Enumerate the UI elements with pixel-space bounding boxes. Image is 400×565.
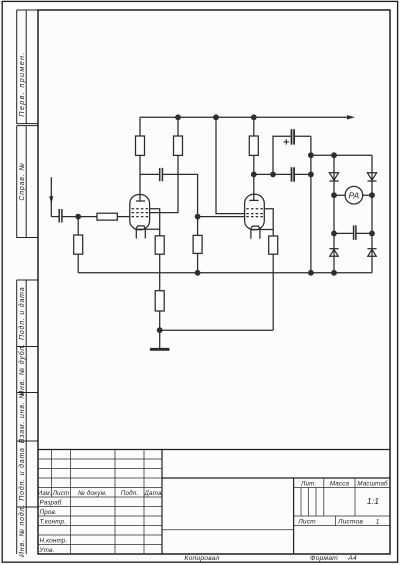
heater V2: [250, 226, 260, 229]
svg-text:Изм.: Изм.: [38, 490, 52, 497]
wire R5 to bottom bus: [77, 254, 79, 273]
svg-text:Утв.: Утв.: [39, 547, 55, 554]
wire bridge left column: [333, 155, 335, 273]
wire ground link: [160, 329, 274, 331]
wire R4 to grid V1: [117, 216, 130, 218]
wire bridge right column: [371, 155, 373, 273]
input terminal arrow: [50, 177, 52, 216]
wire node B to bridge: [311, 154, 372, 156]
svg-text:Разраб.: Разраб.: [40, 499, 64, 507]
cathode lead V1: [136, 228, 160, 230]
wire R8 to ground wire: [272, 254, 274, 330]
svg-text:Лист: Лист: [297, 518, 316, 525]
resistor R3 (plate load V2): [249, 136, 258, 155]
wire grid node V1 down: [77, 217, 79, 235]
vacuum tube V2 envelope: [245, 194, 265, 230]
grid dashes V2: [246, 208, 263, 210]
anode bar V2: [249, 199, 258, 201]
wire R3 to anode V2: [253, 155, 255, 201]
wire node B vertical: [310, 136, 312, 272]
resistor R5 (grid leak V1): [74, 235, 83, 254]
title block texts: [38, 479, 388, 562]
title block major lines: [38, 450, 390, 555]
wire cathode V2 down: [264, 209, 273, 236]
resistor R9 (grid leak V2): [193, 235, 202, 253]
resistor R4 (grid stopper V1): [97, 213, 117, 220]
left margin stamp boxes: [17, 10, 38, 554]
svg-text:Перв. примен.: Перв. примен.: [17, 51, 26, 116]
wire R1 to anode V1: [139, 155, 141, 201]
meter PA: [345, 186, 363, 204]
title block thin lines: [38, 450, 390, 555]
resistor R1 (plate load V1): [136, 136, 145, 155]
svg-text:Листов: Листов: [337, 518, 363, 525]
svg-text:Инв. № подл.: Инв. № подл.: [18, 504, 26, 557]
capacitor C4 (output coupling): [292, 167, 295, 181]
capacitor C1 (input coupling): [59, 209, 62, 223]
diode VD2: [367, 173, 376, 180]
svg-text:Н.контр.: Н.контр.: [40, 538, 68, 545]
svg-text:Лит.: Лит.: [300, 480, 316, 487]
wire bottom bus: [78, 272, 372, 274]
wire branch up to C3: [273, 136, 291, 174]
svg-text:Подп. и дата: Подп. и дата: [18, 447, 26, 500]
wire rail to R3: [253, 117, 255, 136]
cathode lead V2: [250, 229, 273, 231]
wire input to C1: [51, 216, 59, 218]
wire grid node to grid V2: [198, 216, 245, 218]
vacuum tube V1 envelope: [130, 195, 150, 230]
anode bar V1: [136, 200, 145, 202]
svg-text:Т.контр.: Т.контр.: [40, 519, 67, 526]
resistor R2 (screen V1): [174, 136, 183, 155]
supply arrow: [347, 115, 355, 119]
wire C4 to node B: [295, 173, 311, 175]
wire rail to R1: [139, 117, 141, 136]
wire anode V2 to output caps: [254, 173, 291, 175]
svg-text:1:1: 1:1: [367, 496, 379, 506]
svg-text:Дата: Дата: [143, 490, 162, 497]
ground chassis bar: [150, 348, 170, 351]
wire anode V1 to C2: [140, 173, 159, 175]
wire supply rail: [140, 116, 349, 118]
diode VD3: [330, 249, 338, 256]
diode VD1: [329, 173, 338, 180]
svg-text:Инв. № дубл.: Инв. № дубл.: [18, 343, 26, 396]
svg-text:Масштаб: Масштаб: [357, 479, 388, 487]
capacitor C2 (interstage coupling): [160, 168, 163, 181]
wire R6 to R7: [159, 254, 161, 291]
plus sign of C3: [284, 139, 289, 144]
diode VD4: [368, 249, 376, 256]
svg-text:№ докум.: № докум.: [78, 489, 107, 497]
wire C2 to grid node V2: [163, 174, 198, 216]
capacitor C5 (meter shunt): [354, 225, 356, 240]
wire cathode V1 down: [149, 209, 159, 236]
svg-text:Формат: Формат: [310, 555, 338, 562]
svg-text:А4: А4: [347, 555, 357, 562]
wire R7 to ground node: [159, 311, 161, 330]
svg-text:1: 1: [376, 518, 380, 525]
svg-text:Подп.: Подп.: [121, 489, 139, 497]
wire R2 to screen grid V1: [149, 155, 178, 212]
resistor R6 (cathode V1): [155, 236, 164, 254]
svg-text:Подп. и дата: Подп. и дата: [18, 287, 26, 340]
svg-text:Справ. №: Справ. №: [19, 162, 26, 200]
svg-text:РА: РА: [349, 190, 360, 200]
resistor R7: [155, 291, 164, 311]
svg-text:Пров.: Пров.: [40, 509, 57, 516]
resistor R8 (cathode V2): [269, 236, 278, 254]
grid dashes V1: [132, 208, 149, 210]
wire C3 to node B: [295, 135, 311, 137]
capacitor C3 (electrolytic): [292, 129, 295, 144]
svg-text:Взам. инв. №: Взам. инв. №: [19, 390, 26, 443]
svg-text:Масса: Масса: [330, 480, 350, 487]
svg-text:Лист: Лист: [52, 490, 70, 497]
wire rail to screen grid V2: [216, 117, 245, 213]
svg-text:Копировал: Копировал: [184, 555, 219, 562]
wire rail to R2: [177, 117, 179, 136]
wire C1 to grid node V1: [62, 216, 97, 218]
wire grid node V2 to R9 and bus: [197, 217, 199, 273]
heater V1: [136, 226, 146, 229]
